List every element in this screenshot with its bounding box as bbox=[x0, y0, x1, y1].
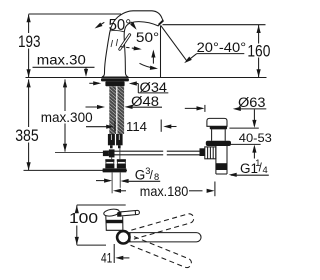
dimension max.180 bbox=[113, 189, 121, 193]
drain neck bbox=[211, 129, 213, 140]
threaded rod right bbox=[117, 86, 124, 134]
valve base bar bbox=[103, 168, 127, 172]
label G 3/8 bbox=[123, 180, 161, 182]
top view body bbox=[106, 216, 123, 231]
threaded rod left bbox=[109, 86, 116, 134]
hose level extension line bbox=[55, 152, 104, 154]
svg-text:193: 193 bbox=[18, 33, 41, 51]
svg-text:41: 41 bbox=[101, 250, 112, 265]
faucet body and spout outline bbox=[102, 11, 163, 77]
lever handle (up position) bbox=[120, 35, 130, 49]
bottom reference line (hose ends) bbox=[24, 169, 128, 171]
label G1 1/4 with leader arrow bbox=[229, 173, 237, 177]
dimension diameter 63 bbox=[185, 107, 203, 109]
drain pipe bbox=[215, 146, 217, 174]
deck / mounting surface line bbox=[26, 77, 267, 79]
bottom extension line bbox=[77, 244, 106, 246]
body joint line bbox=[110, 30, 125, 31]
dimension 41 bbox=[113, 244, 115, 263]
escutcheon washer below deck bbox=[101, 78, 129, 81]
dimension 114 bbox=[86, 126, 112, 128]
svg-text:50°: 50° bbox=[136, 29, 159, 45]
rod end stems bbox=[110, 145, 113, 148]
svg-text:max.300: max.300 bbox=[41, 110, 93, 125]
drain flange bbox=[206, 141, 231, 146]
svg-text:40-53: 40-53 bbox=[239, 131, 272, 145]
extension line at spout outlet level bbox=[163, 24, 266, 26]
svg-text:Ø63: Ø63 bbox=[238, 95, 266, 111]
body dark band bbox=[106, 220, 123, 223]
top extension line (lever-up height) bbox=[29, 13, 121, 15]
plug cap bar bbox=[210, 126, 227, 129]
hose tail left bbox=[111, 173, 113, 194]
dimension 193 vertical line bbox=[28, 14, 30, 33]
dimension 40-53 bbox=[229, 127, 258, 129]
hose cross fitting bbox=[109, 149, 115, 157]
vertical reference line below spout outlet bbox=[160, 25, 162, 77]
check valve right bbox=[117, 159, 126, 161]
mounting nut bbox=[105, 81, 124, 86]
dimension arrows diameter 48 bbox=[86, 106, 104, 108]
dashed swivel position lower bbox=[131, 237, 193, 269]
leader arrow right of 50deg bbox=[131, 22, 135, 28]
swing arc with arrow bbox=[140, 63, 156, 68]
leader arrow left of 50deg bbox=[97, 22, 105, 27]
top extension line bbox=[77, 204, 126, 206]
dashed swivel position upper bbox=[131, 213, 194, 239]
dimension max.300 vertical line bbox=[63, 79, 67, 87]
rod end nuts bbox=[108, 134, 115, 145]
dimension 160 vertical line bbox=[257, 25, 261, 33]
svg-text:8: 8 bbox=[154, 172, 159, 182]
pop-up waste plug dome bbox=[207, 118, 227, 126]
svg-text:G: G bbox=[135, 168, 146, 183]
svg-text:114: 114 bbox=[126, 119, 147, 134]
valve stems bbox=[119, 148, 121, 159]
spout bar bbox=[127, 233, 202, 242]
svg-text:4: 4 bbox=[263, 165, 268, 175]
vertical arrow of swing angle bbox=[152, 52, 154, 64]
svg-text:max.180: max.180 bbox=[140, 184, 189, 199]
hose tail right bbox=[119, 173, 121, 188]
svg-text:385: 385 bbox=[15, 127, 39, 145]
svg-text:20°-40°: 20°-40° bbox=[197, 40, 247, 55]
svg-text:100: 100 bbox=[69, 210, 98, 227]
spray angle diagonal line bbox=[161, 25, 188, 61]
dimension arrows diameter 34 bbox=[89, 82, 99, 84]
hose end cap bbox=[103, 151, 109, 157]
top view lever rod bbox=[118, 210, 140, 216]
base ring bbox=[117, 231, 129, 243]
G 3/8 small dimension arrows bbox=[96, 180, 110, 182]
top view body cap (tilted ellipse) bbox=[103, 208, 119, 217]
drain hose nut bbox=[200, 148, 205, 156]
dimension 100 bbox=[75, 205, 79, 213]
svg-text:max.30: max.30 bbox=[37, 52, 86, 68]
body reflection marks bbox=[111, 40, 113, 47]
check valve left bbox=[105, 159, 114, 161]
svg-text:50°: 50° bbox=[109, 17, 132, 34]
dashed lever direction line with arrow bbox=[121, 47, 139, 49]
dimension 385 vertical line bbox=[27, 79, 31, 87]
spout end face bbox=[159, 21, 163, 25]
flexible hose horizontal bbox=[105, 150, 163, 152]
